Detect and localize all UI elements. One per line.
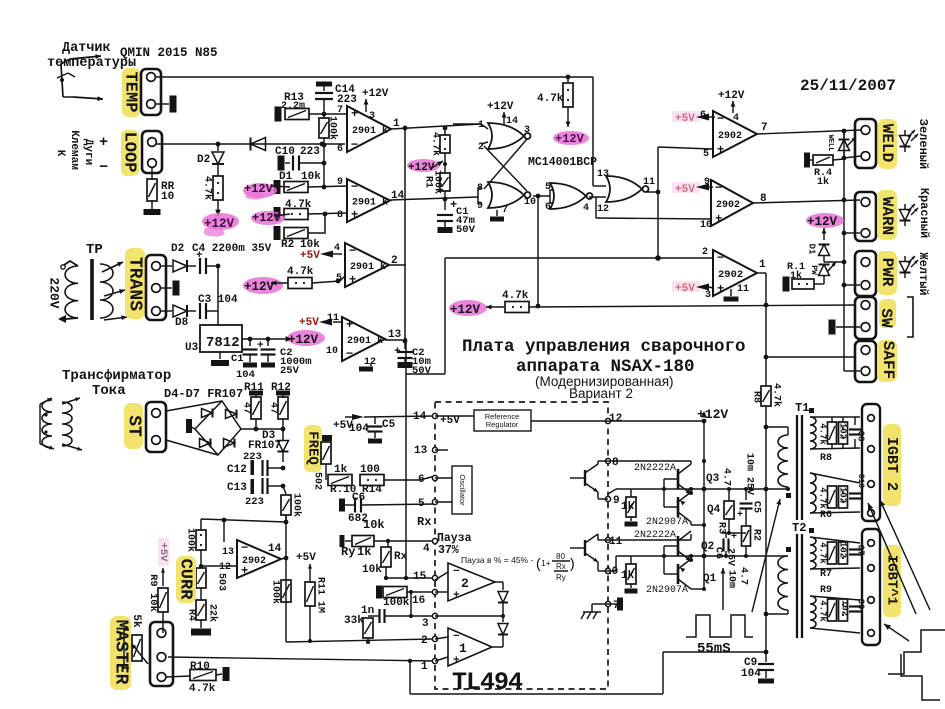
svg-text:WELD: WELD [878,124,896,162]
svg-text:2: 2 [702,247,708,258]
svg-text:C7: C7 [856,545,866,556]
svg-text:+12V: +12V [487,101,514,113]
svg-text:223: 223 [245,496,264,508]
svg-text:+: + [717,282,724,296]
svg-text:Зеленый: Зеленый [916,119,930,169]
svg-text:7: 7 [761,122,768,134]
svg-text:+: + [453,590,460,602]
svg-text:50V: 50V [456,224,476,236]
svg-text:2N2222A: 2N2222A [634,530,676,541]
svg-text:WARN: WARN [878,197,896,235]
svg-text:Клемам: Клемам [68,130,80,170]
svg-text:10: 10 [326,346,338,357]
svg-text:CURR: CURR [176,559,195,601]
svg-text:+: + [349,273,356,287]
svg-text:3: 3 [422,618,429,630]
svg-text:C10: C10 [856,474,865,489]
svg-text:Q4: Q4 [707,504,721,516]
svg-text:4.7k: 4.7k [537,93,564,105]
svg-text:104: 104 [349,423,369,435]
svg-text:4: 4 [334,243,340,254]
svg-text:R8: R8 [820,453,832,464]
svg-text:4.7k: 4.7k [502,290,529,302]
svg-text:C12: C12 [227,464,247,476]
svg-text:220V: 220V [47,277,62,308]
svg-text:25V: 25V [280,365,300,377]
svg-text:R6: R6 [820,510,832,521]
svg-text:+12V: +12V [450,303,481,317]
svg-text:D4-D7 FR107: D4-D7 FR107 [164,387,243,401]
svg-text:+: + [351,107,358,121]
svg-text:LOOP: LOOP [120,132,139,173]
svg-text:1: 1 [459,641,467,656]
svg-text:D1: D1 [807,244,817,255]
svg-text:−: − [351,138,358,152]
svg-text:−: − [346,347,353,361]
svg-text:Желтый: Желтый [916,252,930,295]
svg-text:+: + [715,212,722,226]
svg-text:1+: 1+ [541,558,551,568]
svg-text:12: 12 [219,562,231,573]
svg-text:C13: C13 [227,482,247,494]
svg-text:+5V: +5V [440,415,460,427]
svg-text:15: 15 [413,571,427,583]
svg-text:4.7k: 4.7k [770,383,782,407]
svg-text:47: 47 [240,402,251,414]
svg-text:11: 11 [643,177,655,188]
svg-text:10m: 10m [725,570,736,588]
svg-text:4.7k: 4.7k [818,542,828,564]
svg-text:TL494: TL494 [452,668,523,697]
svg-text:4.7k: 4.7k [818,487,828,509]
svg-text:10k: 10k [363,518,385,532]
svg-text:PW: PW [809,265,818,275]
svg-text:Вариант 2: Вариант 2 [569,386,633,401]
svg-text:SAFF: SAFF [879,341,897,379]
svg-text:R11 1M: R11 1M [314,577,325,613]
svg-text:D2: D2 [171,243,184,255]
svg-text:C6: C6 [712,547,723,559]
svg-text:R10: R10 [190,661,210,673]
svg-text:13: 13 [597,169,609,180]
svg-text:−: − [241,541,248,555]
svg-text:12: 12 [597,204,609,215]
svg-text:4.7k: 4.7k [189,683,216,695]
svg-text:10: 10 [161,191,174,203]
svg-text:25V: 25V [724,548,735,566]
svg-text:2N2222A: 2N2222A [634,463,676,474]
svg-text:Ry: Ry [556,573,566,582]
svg-text:3: 3 [705,290,711,301]
svg-text:R8: R8 [750,391,761,403]
svg-text:TRANS: TRANS [124,257,144,311]
svg-text:80: 80 [556,552,565,561]
svg-text:9: 9 [477,201,483,212]
svg-text:47: 47 [267,402,278,414]
svg-text:+12V: +12V [697,407,728,422]
svg-text:100k: 100k [431,170,443,194]
svg-text:33k: 33k [344,615,364,627]
svg-text:4: 4 [423,543,430,555]
svg-text:−: − [453,566,460,578]
svg-text:−: − [349,244,356,258]
svg-text:T1: T1 [795,401,809,415]
svg-text:4: 4 [583,203,589,214]
svg-text:22k: 22k [206,604,218,622]
svg-text:Rx: Rx [556,562,566,571]
svg-text:10m 25V: 10m 25V [743,453,754,495]
svg-text:+12V: +12V [807,215,838,229]
svg-text:10: 10 [524,197,536,208]
svg-text:8: 8 [337,210,343,221]
svg-text:10k: 10k [362,564,382,576]
svg-text:IGBT^1: IGBT^1 [883,555,899,605]
svg-text:7: 7 [337,105,343,116]
svg-text:ТР: ТР [86,242,103,258]
svg-text:4.7k: 4.7k [818,423,828,445]
svg-text:102: 102 [838,423,848,439]
svg-text:C8: C8 [856,431,866,442]
svg-text:100k: 100k [290,493,302,517]
svg-text:102: 102 [838,542,848,558]
svg-text:4.7: 4.7 [720,468,731,486]
svg-text:2902: 2902 [716,200,740,211]
svg-text:100k: 100k [269,580,281,604]
svg-text:WELL: WELL [826,135,834,152]
svg-text:+5V: +5V [296,552,316,564]
svg-text:R3: R3 [715,522,726,534]
svg-text:1k: 1k [621,570,635,582]
svg-text:4.7k: 4.7k [287,266,314,278]
svg-text:−: − [715,181,722,195]
svg-text:2901 k: 2901 k [352,125,388,137]
svg-text:1k: 1k [357,545,371,559]
svg-text:Пауза в % = 45% -: Пауза в % = 45% - [461,555,533,565]
svg-text:C5: C5 [750,501,761,513]
svg-text:−: − [351,180,358,194]
svg-text:−: − [99,159,108,176]
svg-text:FREQ: FREQ [304,431,320,465]
svg-text:C4 2200m 35V: C4 2200m 35V [192,243,272,255]
svg-text:R4: R4 [185,609,196,621]
svg-text:8: 8 [612,457,619,469]
svg-text:13: 13 [388,329,402,341]
svg-text:3: 3 [369,111,375,122]
svg-text:ST: ST [123,415,143,437]
svg-text:102: 102 [840,600,850,616]
svg-text:6: 6 [418,474,425,486]
svg-text:C1: C1 [231,353,244,365]
svg-text:): ) [570,555,575,571]
svg-text:Oscillator: Oscillator [458,474,467,506]
svg-text:16: 16 [412,595,425,607]
svg-text:6: 6 [700,110,706,121]
svg-text:+: + [351,208,358,222]
svg-text:+5V: +5V [299,317,319,329]
svg-text:Rx: Rx [417,515,431,529]
svg-text:+: + [737,510,743,521]
svg-text:2902: 2902 [242,556,266,567]
svg-text:7: 7 [502,205,508,216]
svg-text:IGBT 2: IGBT 2 [883,437,900,491]
svg-text:+12V: +12V [362,88,389,100]
svg-text:5: 5 [418,498,425,510]
svg-text:T2: T2 [792,521,806,535]
svg-text:2901 k: 2901 k [352,197,388,209]
svg-text:4: 4 [733,113,739,124]
svg-text:37%: 37% [438,544,459,557]
svg-text:PWR: PWR [878,258,896,287]
svg-text:Плата управления сварочного: Плата управления сварочного [462,337,746,357]
svg-text:14: 14 [268,543,282,555]
svg-text:+12V: +12V [244,280,275,294]
svg-text:R2: R2 [750,529,761,541]
svg-text:50V: 50V [412,365,432,377]
svg-text:2: 2 [461,576,469,591]
svg-text:2N2907A: 2N2907A [646,517,688,528]
svg-text:Дуги: Дуги [82,139,94,165]
svg-text:+: + [453,655,460,667]
svg-text:Q1: Q1 [703,573,717,585]
svg-text:223: 223 [300,146,320,158]
svg-text:QMIN 2015 N85: QMIN 2015 N85 [120,46,218,60]
svg-text:MC14001BCP: MC14001BCP [528,156,597,169]
svg-text:+12V: +12V [244,182,274,196]
svg-text:2902: 2902 [718,269,743,281]
svg-text:4.7k: 4.7k [201,176,213,200]
svg-text:Датчик: Датчик [62,41,111,56]
svg-text:Тока: Тока [92,383,126,399]
svg-text:R2: R2 [281,239,294,251]
svg-text:1k: 1k [621,501,635,513]
svg-text:+5V: +5V [300,250,320,262]
svg-text:К: К [54,150,66,157]
svg-text:11: 11 [609,536,623,548]
svg-text:7812: 7812 [206,335,240,351]
svg-text:104: 104 [236,369,255,381]
svg-text:13: 13 [414,445,428,457]
svg-text:25/11/2007: 25/11/2007 [800,77,896,95]
svg-text:1k: 1k [817,176,829,188]
svg-text:100k: 100k [326,116,338,140]
svg-text:4.7k: 4.7k [429,132,441,156]
svg-text:SW: SW [877,308,895,328]
svg-text:4.7: 4.7 [737,567,748,585]
svg-text:11: 11 [737,284,749,295]
svg-text:503: 503 [215,573,226,591]
svg-text:Красный: Красный [917,188,931,238]
svg-text:R9: R9 [820,585,832,596]
svg-text:D2: D2 [197,154,210,166]
svg-text:+12V: +12V [555,132,585,146]
svg-text:U3: U3 [185,342,199,354]
svg-text:13: 13 [222,547,234,558]
svg-text:+: + [731,532,737,543]
svg-text:Q3: Q3 [706,473,720,485]
svg-text:+12V: +12V [252,211,282,225]
svg-text:2.2m: 2.2m [281,101,305,112]
svg-text:100k: 100k [184,528,196,552]
svg-text:+: + [346,318,353,332]
svg-text:1: 1 [759,259,766,271]
svg-text:10: 10 [700,220,712,231]
svg-text:2901 k: 2901 k [350,261,386,273]
svg-text:+: + [717,143,724,157]
svg-text:−: − [717,251,724,265]
svg-text:Ry: Ry [341,545,355,559]
svg-text:14: 14 [413,411,427,423]
svg-text:5k: 5k [130,614,142,628]
svg-text:5: 5 [703,149,709,160]
svg-text:+: + [99,134,108,151]
svg-text:9: 9 [337,177,343,188]
svg-text:R7: R7 [820,569,832,580]
svg-text:12: 12 [609,413,622,425]
svg-text:+12V: +12V [288,333,319,347]
svg-text:4.7k: 4.7k [818,600,828,622]
svg-text:Regulator: Regulator [486,420,519,429]
svg-text:102: 102 [838,487,848,503]
svg-text:502: 502 [311,472,322,490]
svg-text:8: 8 [477,183,483,194]
svg-text:3: 3 [524,125,530,136]
svg-text:9: 9 [704,177,710,188]
svg-text:D8: D8 [175,317,189,329]
svg-text:12: 12 [364,357,376,368]
svg-text:9: 9 [613,495,620,507]
svg-text:2901 k: 2901 k [347,335,383,347]
svg-text:2902: 2902 [718,131,742,142]
svg-text:C9: C9 [856,599,866,610]
svg-text:Трансфирматор: Трансфирматор [62,368,171,384]
svg-text:2: 2 [421,635,428,647]
svg-text:−: − [717,112,724,126]
svg-text:1: 1 [421,661,428,673]
svg-text:TEMP: TEMP [121,72,140,113]
svg-text:55mS: 55mS [697,641,731,657]
svg-text:Q2: Q2 [701,541,714,553]
svg-text:6: 6 [337,144,343,155]
svg-text:100k: 100k [383,597,410,609]
svg-text:C5: C5 [382,419,396,431]
svg-text:+12V: +12V [718,90,745,102]
svg-text:2N2907A: 2N2907A [646,585,688,596]
